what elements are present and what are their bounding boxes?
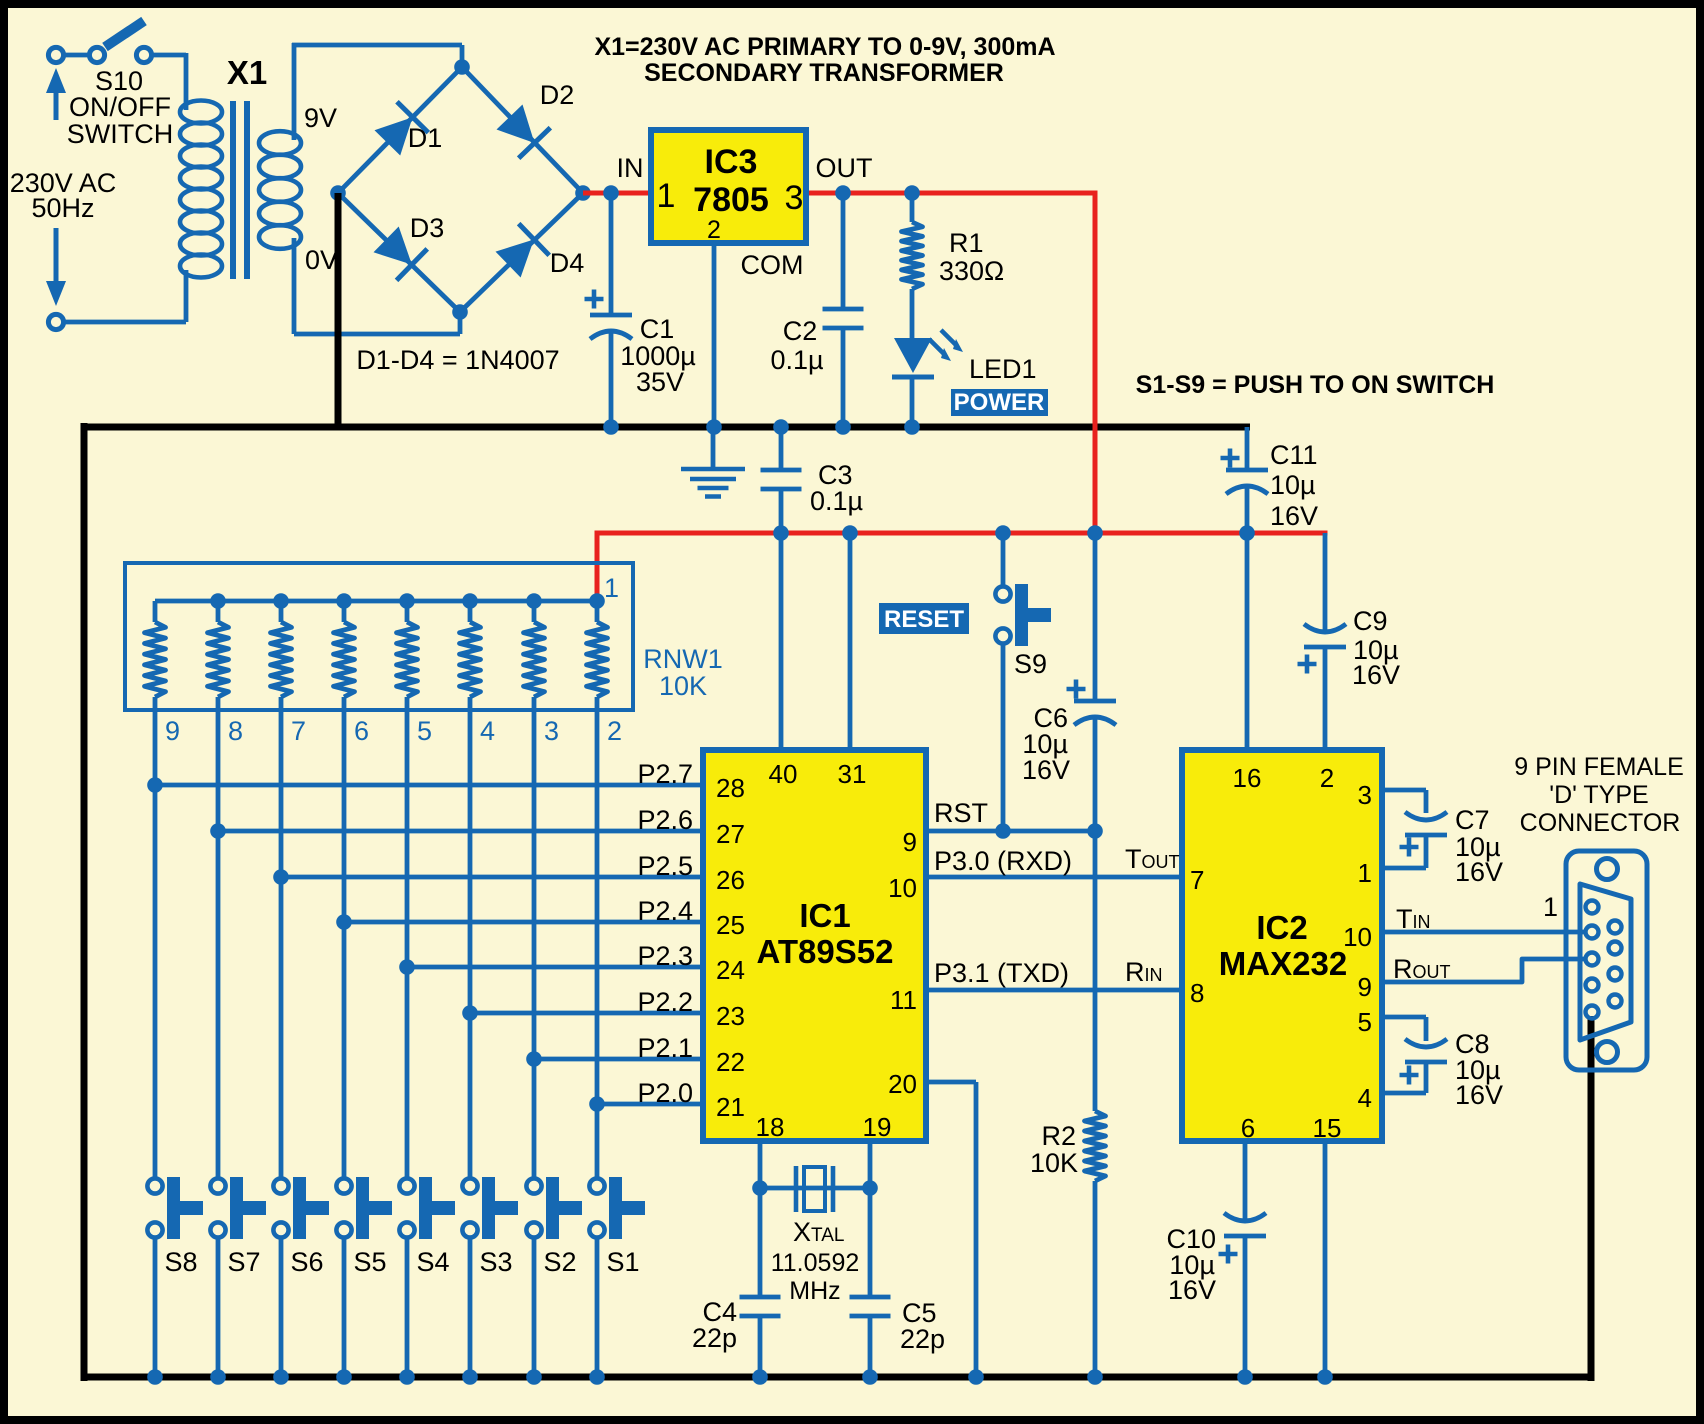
switch S3 bbox=[462, 1177, 518, 1239]
junction bbox=[336, 914, 352, 930]
label C7 bbox=[1455, 805, 1503, 887]
pin 1 bbox=[657, 177, 676, 215]
svg-text:P2.1: P2.1 bbox=[637, 1033, 693, 1063]
svg-text:9 PIN FEMALE: 9 PIN FEMALE bbox=[1514, 753, 1684, 781]
svg-text:OUT: OUT bbox=[816, 153, 873, 183]
ground bus top bbox=[84, 424, 1250, 431]
wire bbox=[153, 1238, 158, 1377]
LED LED1 bbox=[892, 330, 963, 377]
junction bbox=[1087, 823, 1103, 839]
svg-text:5: 5 bbox=[1358, 1007, 1372, 1037]
wire 0V to ground bus bbox=[335, 193, 342, 427]
wire pin15 bbox=[1323, 1141, 1328, 1377]
wire bbox=[532, 1238, 537, 1377]
label P2.0 bbox=[637, 1078, 693, 1108]
switch S4 bbox=[399, 1177, 455, 1239]
junction bbox=[575, 185, 591, 201]
junction bbox=[1087, 1369, 1103, 1385]
junction bbox=[904, 185, 920, 201]
svg-text:MAX232: MAX232 bbox=[1219, 945, 1347, 982]
label 9 PIN FEMALE D TYPE CONNECTOR bbox=[1514, 753, 1684, 837]
wire bbox=[1243, 1141, 1248, 1377]
svg-text:15: 15 bbox=[1313, 1113, 1342, 1143]
label C4 22p bbox=[692, 1297, 737, 1353]
label S6 bbox=[290, 1247, 323, 1277]
svg-text:X1: X1 bbox=[227, 54, 267, 91]
wire bbox=[1001, 644, 1006, 831]
svg-text:1: 1 bbox=[657, 177, 676, 215]
junction bbox=[968, 1369, 984, 1385]
svg-text:X1=230V AC PRIMARY TO 0-9V, 30: X1=230V AC PRIMARY TO 0-9V, 300mA bbox=[594, 33, 1055, 61]
wire bbox=[292, 43, 462, 140]
junction bbox=[1087, 525, 1103, 541]
resistor R2 bbox=[1085, 1111, 1106, 1181]
svg-text:P2.5: P2.5 bbox=[637, 851, 693, 881]
capacitor C5 bbox=[850, 1297, 891, 1316]
wire bbox=[868, 1188, 873, 1377]
note S1-S9 bbox=[1136, 371, 1495, 399]
wire bbox=[1323, 533, 1328, 750]
junction bbox=[589, 593, 605, 609]
svg-text:16V: 16V bbox=[1270, 501, 1318, 531]
plus bbox=[1298, 655, 1317, 674]
junction bbox=[462, 1005, 478, 1021]
label D2 bbox=[540, 80, 575, 110]
svg-text:D3: D3 bbox=[410, 213, 445, 243]
label P2.4 bbox=[637, 896, 693, 926]
IC1 right pin numbers bbox=[888, 827, 917, 1099]
svg-text:28: 28 bbox=[716, 773, 745, 803]
wire bbox=[1093, 533, 1098, 831]
svg-text:S5: S5 bbox=[353, 1247, 386, 1277]
AC terminal bbox=[48, 314, 63, 329]
switch S8 bbox=[147, 1177, 203, 1239]
wire TXD bbox=[926, 988, 1182, 993]
wire bbox=[841, 193, 846, 427]
svg-text:0.1µ: 0.1µ bbox=[770, 345, 823, 375]
svg-text:22p: 22p bbox=[692, 1323, 737, 1353]
svg-text:P3.0 (RXD): P3.0 (RXD) bbox=[934, 846, 1072, 876]
wire bbox=[595, 1238, 600, 1377]
svg-text:18: 18 bbox=[756, 1112, 785, 1142]
regulator IC3 7805 bbox=[651, 130, 806, 243]
wire Rout bbox=[1382, 959, 1586, 982]
wire RST bbox=[926, 829, 1095, 834]
label D1-D4 = 1N4007 bbox=[356, 345, 559, 375]
wire bbox=[712, 245, 717, 427]
capacitor C3 bbox=[761, 470, 802, 489]
svg-text:COM: COM bbox=[741, 250, 804, 280]
svg-text:CONNECTOR: CONNECTOR bbox=[1520, 809, 1681, 837]
label C10 bbox=[1166, 1224, 1216, 1305]
svg-text:50Hz: 50Hz bbox=[31, 193, 94, 223]
svg-text:IC1: IC1 bbox=[799, 897, 850, 934]
label 230V AC 50Hz bbox=[10, 168, 117, 223]
DB9 screws bbox=[1597, 859, 1618, 1063]
wire bbox=[1245, 427, 1250, 533]
svg-text:31: 31 bbox=[838, 759, 867, 789]
wire bbox=[152, 53, 186, 110]
svg-text:S3: S3 bbox=[479, 1247, 512, 1277]
switch S9 bbox=[995, 584, 1051, 646]
wire bbox=[338, 67, 583, 312]
wire P2.5 bbox=[281, 875, 703, 880]
label S1 bbox=[606, 1247, 639, 1277]
AC input down arrow bbox=[46, 228, 66, 306]
label Tout bbox=[1125, 844, 1180, 874]
junction bbox=[526, 1051, 542, 1067]
svg-text:D1-D4 = 1N4007: D1-D4 = 1N4007 bbox=[356, 345, 559, 375]
label DB9 pin1 bbox=[1543, 892, 1558, 922]
svg-text:11: 11 bbox=[890, 985, 917, 1015]
svg-text:S8: S8 bbox=[164, 1247, 197, 1277]
svg-text:S6: S6 bbox=[290, 1247, 323, 1277]
ground bbox=[681, 427, 745, 497]
label S8 bbox=[164, 1247, 197, 1277]
label P3.1 (TXD) bbox=[934, 958, 1069, 988]
switch S5 bbox=[336, 1177, 392, 1239]
wire P2.7 bbox=[155, 783, 703, 788]
IC2 top pin numbers bbox=[1233, 763, 1335, 793]
plus bbox=[1400, 838, 1419, 857]
pin 3 bbox=[785, 179, 804, 217]
label D1 bbox=[408, 123, 443, 153]
svg-text:AT89S52: AT89S52 bbox=[757, 933, 894, 970]
svg-text:2: 2 bbox=[1320, 763, 1334, 793]
label P2.7 bbox=[637, 759, 693, 789]
label Rout bbox=[1393, 954, 1451, 984]
svg-text:26: 26 bbox=[716, 865, 745, 895]
wire P2.1 bbox=[534, 1057, 703, 1062]
junction bbox=[526, 593, 542, 609]
svg-text:9: 9 bbox=[165, 716, 180, 746]
junction bbox=[399, 1369, 415, 1385]
junction bbox=[862, 1180, 878, 1196]
capacitor C2 bbox=[823, 309, 864, 328]
capacitor C11 bbox=[1226, 470, 1268, 494]
svg-text:27: 27 bbox=[716, 819, 745, 849]
label RNW1 pin1 bbox=[604, 573, 619, 603]
svg-text:25: 25 bbox=[716, 910, 745, 940]
plus bbox=[585, 290, 604, 309]
wire bbox=[294, 238, 460, 334]
svg-text:6: 6 bbox=[354, 716, 369, 746]
5V rail bbox=[595, 533, 1328, 601]
label Tin bbox=[1396, 904, 1431, 934]
label 0V bbox=[305, 245, 338, 275]
svg-text:16V: 16V bbox=[1455, 1080, 1503, 1110]
label RST bbox=[934, 798, 988, 828]
svg-text:9V: 9V bbox=[304, 103, 337, 133]
label S7 bbox=[227, 1247, 260, 1277]
junction bbox=[210, 823, 226, 839]
svg-text:20: 20 bbox=[888, 1069, 917, 1099]
svg-text:P2.7: P2.7 bbox=[637, 759, 693, 789]
junction bbox=[273, 593, 289, 609]
junction bbox=[1317, 1369, 1333, 1385]
svg-text:S7: S7 bbox=[227, 1247, 260, 1277]
diode D4 bbox=[496, 224, 550, 278]
svg-text:4: 4 bbox=[480, 716, 495, 746]
label 9V bbox=[304, 103, 337, 133]
label P2.1 bbox=[637, 1033, 693, 1063]
svg-text:5: 5 bbox=[417, 716, 432, 746]
svg-text:10: 10 bbox=[888, 873, 917, 903]
IC2 bottom pin numbers bbox=[1241, 1113, 1342, 1143]
wire P2.3 bbox=[407, 965, 703, 970]
crystal XTAL bbox=[796, 1166, 833, 1212]
svg-text:22p: 22p bbox=[900, 1324, 945, 1354]
junction bbox=[1239, 525, 1255, 541]
switch S1 bbox=[589, 1177, 645, 1239]
svg-text:IC2: IC2 bbox=[1256, 909, 1307, 946]
svg-text:10µ: 10µ bbox=[1270, 470, 1316, 500]
svg-text:16V: 16V bbox=[1455, 857, 1503, 887]
label C11 bbox=[1270, 440, 1318, 531]
label P2.3 bbox=[637, 941, 693, 971]
svg-text:P3.1 (TXD): P3.1 (TXD) bbox=[934, 958, 1069, 988]
RNW1 resistors and switch columns bbox=[145, 601, 608, 1178]
resistor network RNW1 box bbox=[125, 563, 633, 710]
junction bbox=[210, 1369, 226, 1385]
label R1 330 bbox=[939, 228, 1004, 286]
junction bbox=[752, 1369, 768, 1385]
junction bbox=[835, 419, 851, 435]
wire bbox=[910, 377, 915, 427]
diode D1 bbox=[375, 102, 429, 156]
IC2 left pin numbers bbox=[1190, 865, 1204, 1008]
transformer X1 secondary winding bbox=[259, 131, 301, 249]
label S4 bbox=[416, 1247, 449, 1277]
label C3 0.1u bbox=[810, 460, 863, 516]
wire bbox=[63, 270, 186, 322]
wire bbox=[279, 1238, 284, 1377]
svg-text:2: 2 bbox=[607, 716, 622, 746]
svg-text:C2: C2 bbox=[783, 316, 818, 346]
wire bbox=[609, 193, 614, 427]
junction bbox=[147, 777, 163, 793]
IC U1 AT89S52 bbox=[703, 750, 926, 1141]
junction bbox=[995, 525, 1011, 541]
label C9 bbox=[1352, 606, 1400, 690]
svg-text:0.1µ: 0.1µ bbox=[810, 486, 863, 516]
label P3.0 (RXD) bbox=[934, 846, 1072, 876]
svg-text:3: 3 bbox=[785, 179, 804, 217]
label C8 bbox=[1455, 1029, 1503, 1110]
title line 2 bbox=[644, 59, 1004, 87]
wire bbox=[779, 427, 784, 533]
svg-text:IC3: IC3 bbox=[705, 143, 758, 181]
junction bbox=[589, 1096, 605, 1112]
wire pin20 bbox=[926, 1082, 976, 1377]
transformer X1 core bbox=[233, 101, 247, 279]
label D3 bbox=[410, 213, 445, 243]
svg-text:S2: S2 bbox=[543, 1247, 576, 1277]
label C2 0.1u bbox=[770, 316, 823, 375]
junction bbox=[462, 593, 478, 609]
label S9 bbox=[1014, 649, 1047, 679]
title line 1 bbox=[594, 33, 1055, 61]
junction bbox=[773, 525, 789, 541]
junction bbox=[452, 304, 468, 320]
IC U2 MAX232 bbox=[1182, 750, 1382, 1141]
svg-text:P2.0: P2.0 bbox=[637, 1078, 693, 1108]
label D4 bbox=[550, 248, 585, 278]
wire RXD bbox=[926, 875, 1182, 880]
AC input up arrow bbox=[46, 68, 66, 120]
wire P2.2 bbox=[470, 1011, 703, 1016]
svg-text:IN: IN bbox=[617, 153, 644, 183]
junction bbox=[773, 419, 789, 435]
label S5 bbox=[353, 1247, 386, 1277]
junction bbox=[995, 823, 1011, 839]
labels RNW1 pins bbox=[165, 716, 622, 746]
wire bbox=[1001, 533, 1006, 586]
plus bbox=[1219, 1245, 1238, 1264]
junction bbox=[336, 593, 352, 609]
plus bbox=[1067, 680, 1086, 699]
label P2.6 bbox=[637, 805, 693, 835]
wire bbox=[910, 289, 915, 340]
svg-text:S4: S4 bbox=[416, 1247, 449, 1277]
svg-text:3: 3 bbox=[544, 716, 559, 746]
capacitor C8 bbox=[1405, 1039, 1447, 1062]
svg-text:POWER: POWER bbox=[954, 389, 1045, 416]
svg-text:40: 40 bbox=[769, 759, 798, 789]
svg-text:35V: 35V bbox=[636, 367, 684, 397]
junction bbox=[210, 593, 226, 609]
IC2 right pin numbers bbox=[1343, 780, 1372, 1113]
wire P2.0 bbox=[597, 1102, 703, 1107]
svg-text:24: 24 bbox=[716, 955, 745, 985]
svg-text:7: 7 bbox=[291, 716, 306, 746]
wire Tin bbox=[1382, 930, 1586, 935]
junction bbox=[706, 419, 722, 435]
svg-text:19: 19 bbox=[863, 1112, 892, 1142]
svg-text:C7: C7 bbox=[1455, 805, 1490, 835]
svg-text:9: 9 bbox=[1358, 972, 1372, 1002]
svg-text:10K: 10K bbox=[1030, 1148, 1078, 1178]
svg-text:C11: C11 bbox=[1270, 440, 1318, 470]
wire bbox=[758, 1188, 763, 1377]
junction bbox=[842, 525, 858, 541]
junction bbox=[835, 185, 851, 201]
junction bbox=[330, 185, 346, 201]
wire bbox=[910, 193, 915, 222]
connector DB9 shell bbox=[1566, 851, 1647, 1070]
transformer X1 primary winding bbox=[180, 101, 222, 278]
svg-text:ON/OFF: ON/OFF bbox=[69, 92, 171, 122]
diode D2 bbox=[497, 105, 551, 159]
junction bbox=[399, 593, 415, 609]
wire pin31 bbox=[848, 533, 853, 750]
junction bbox=[1237, 1369, 1253, 1385]
capacitor C1 bbox=[590, 315, 632, 339]
svg-text:RESET: RESET bbox=[884, 606, 964, 633]
svg-text:16: 16 bbox=[1233, 763, 1262, 793]
svg-text:10K: 10K bbox=[659, 671, 707, 701]
svg-text:21: 21 bbox=[716, 1092, 745, 1122]
svg-text:R2: R2 bbox=[1041, 1121, 1076, 1151]
svg-text:1: 1 bbox=[1543, 892, 1558, 922]
junction bbox=[454, 59, 470, 75]
wire pin16 bbox=[1245, 533, 1250, 750]
junction bbox=[147, 1369, 163, 1385]
plus bbox=[1400, 1066, 1419, 1085]
junction bbox=[589, 1369, 605, 1385]
svg-text:D1: D1 bbox=[408, 123, 443, 153]
svg-text:16V: 16V bbox=[1022, 755, 1070, 785]
junction bbox=[603, 185, 619, 201]
svg-text:S1-S9 = PUSH TO ON SWITCH: S1-S9 = PUSH TO ON SWITCH bbox=[1136, 371, 1495, 399]
wire bbox=[1382, 790, 1426, 868]
junction bbox=[399, 959, 415, 975]
wire pin40 bbox=[779, 533, 784, 750]
junction bbox=[526, 1369, 542, 1385]
junction bbox=[904, 419, 920, 435]
svg-text:2: 2 bbox=[707, 216, 721, 244]
label S10 ON/OFF SWITCH bbox=[67, 66, 173, 149]
svg-text:10: 10 bbox=[1343, 922, 1372, 952]
switch S7 bbox=[210, 1177, 266, 1239]
svg-text:7: 7 bbox=[1190, 865, 1204, 895]
pin 2 bbox=[707, 216, 721, 244]
capacitor C6 bbox=[1074, 701, 1116, 725]
junction bbox=[462, 1369, 478, 1385]
label RNW1 10K bbox=[643, 644, 723, 701]
junction bbox=[862, 1369, 878, 1385]
junction bbox=[336, 1369, 352, 1385]
svg-text:4: 4 bbox=[1358, 1083, 1372, 1113]
svg-text:1: 1 bbox=[604, 573, 619, 603]
svg-text:0V: 0V bbox=[305, 245, 338, 275]
wire bbox=[1382, 1017, 1426, 1093]
ground bus left bbox=[81, 423, 88, 1381]
IC1 top pin numbers bbox=[769, 759, 867, 789]
junction bbox=[752, 1180, 768, 1196]
svg-text:16V: 16V bbox=[1168, 1275, 1216, 1305]
label COM bbox=[741, 250, 804, 280]
wire bbox=[216, 1238, 221, 1377]
IC1 bottom pin numbers bbox=[756, 1112, 892, 1142]
label P2.5 bbox=[637, 851, 693, 881]
capacitor C4 bbox=[740, 1297, 781, 1316]
svg-text:P2.4: P2.4 bbox=[637, 896, 693, 926]
svg-text:R1: R1 bbox=[949, 228, 984, 258]
svg-text:P2.3: P2.3 bbox=[637, 941, 693, 971]
svg-text:6: 6 bbox=[1241, 1113, 1255, 1143]
junction bbox=[273, 1369, 289, 1385]
label P2.2 bbox=[637, 987, 693, 1017]
svg-text:C1: C1 bbox=[640, 314, 675, 344]
svg-text:MHz: MHz bbox=[789, 1277, 840, 1305]
svg-text:D4: D4 bbox=[550, 248, 585, 278]
svg-text:LED1: LED1 bbox=[969, 354, 1037, 384]
label POWER bbox=[951, 389, 1048, 416]
svg-text:1: 1 bbox=[1358, 858, 1372, 888]
svg-text:8: 8 bbox=[1190, 978, 1204, 1008]
label S2 bbox=[543, 1247, 576, 1277]
wire bbox=[342, 1238, 347, 1377]
svg-text:P2.6: P2.6 bbox=[637, 805, 693, 835]
label C1 1000u 35V bbox=[620, 314, 696, 397]
svg-text:P2.2: P2.2 bbox=[637, 987, 693, 1017]
switch S2 bbox=[526, 1177, 582, 1239]
wire bbox=[1093, 1181, 1098, 1377]
wire bbox=[468, 1238, 473, 1377]
svg-text:11.0592: 11.0592 bbox=[771, 1249, 860, 1277]
label S3 bbox=[479, 1247, 512, 1277]
